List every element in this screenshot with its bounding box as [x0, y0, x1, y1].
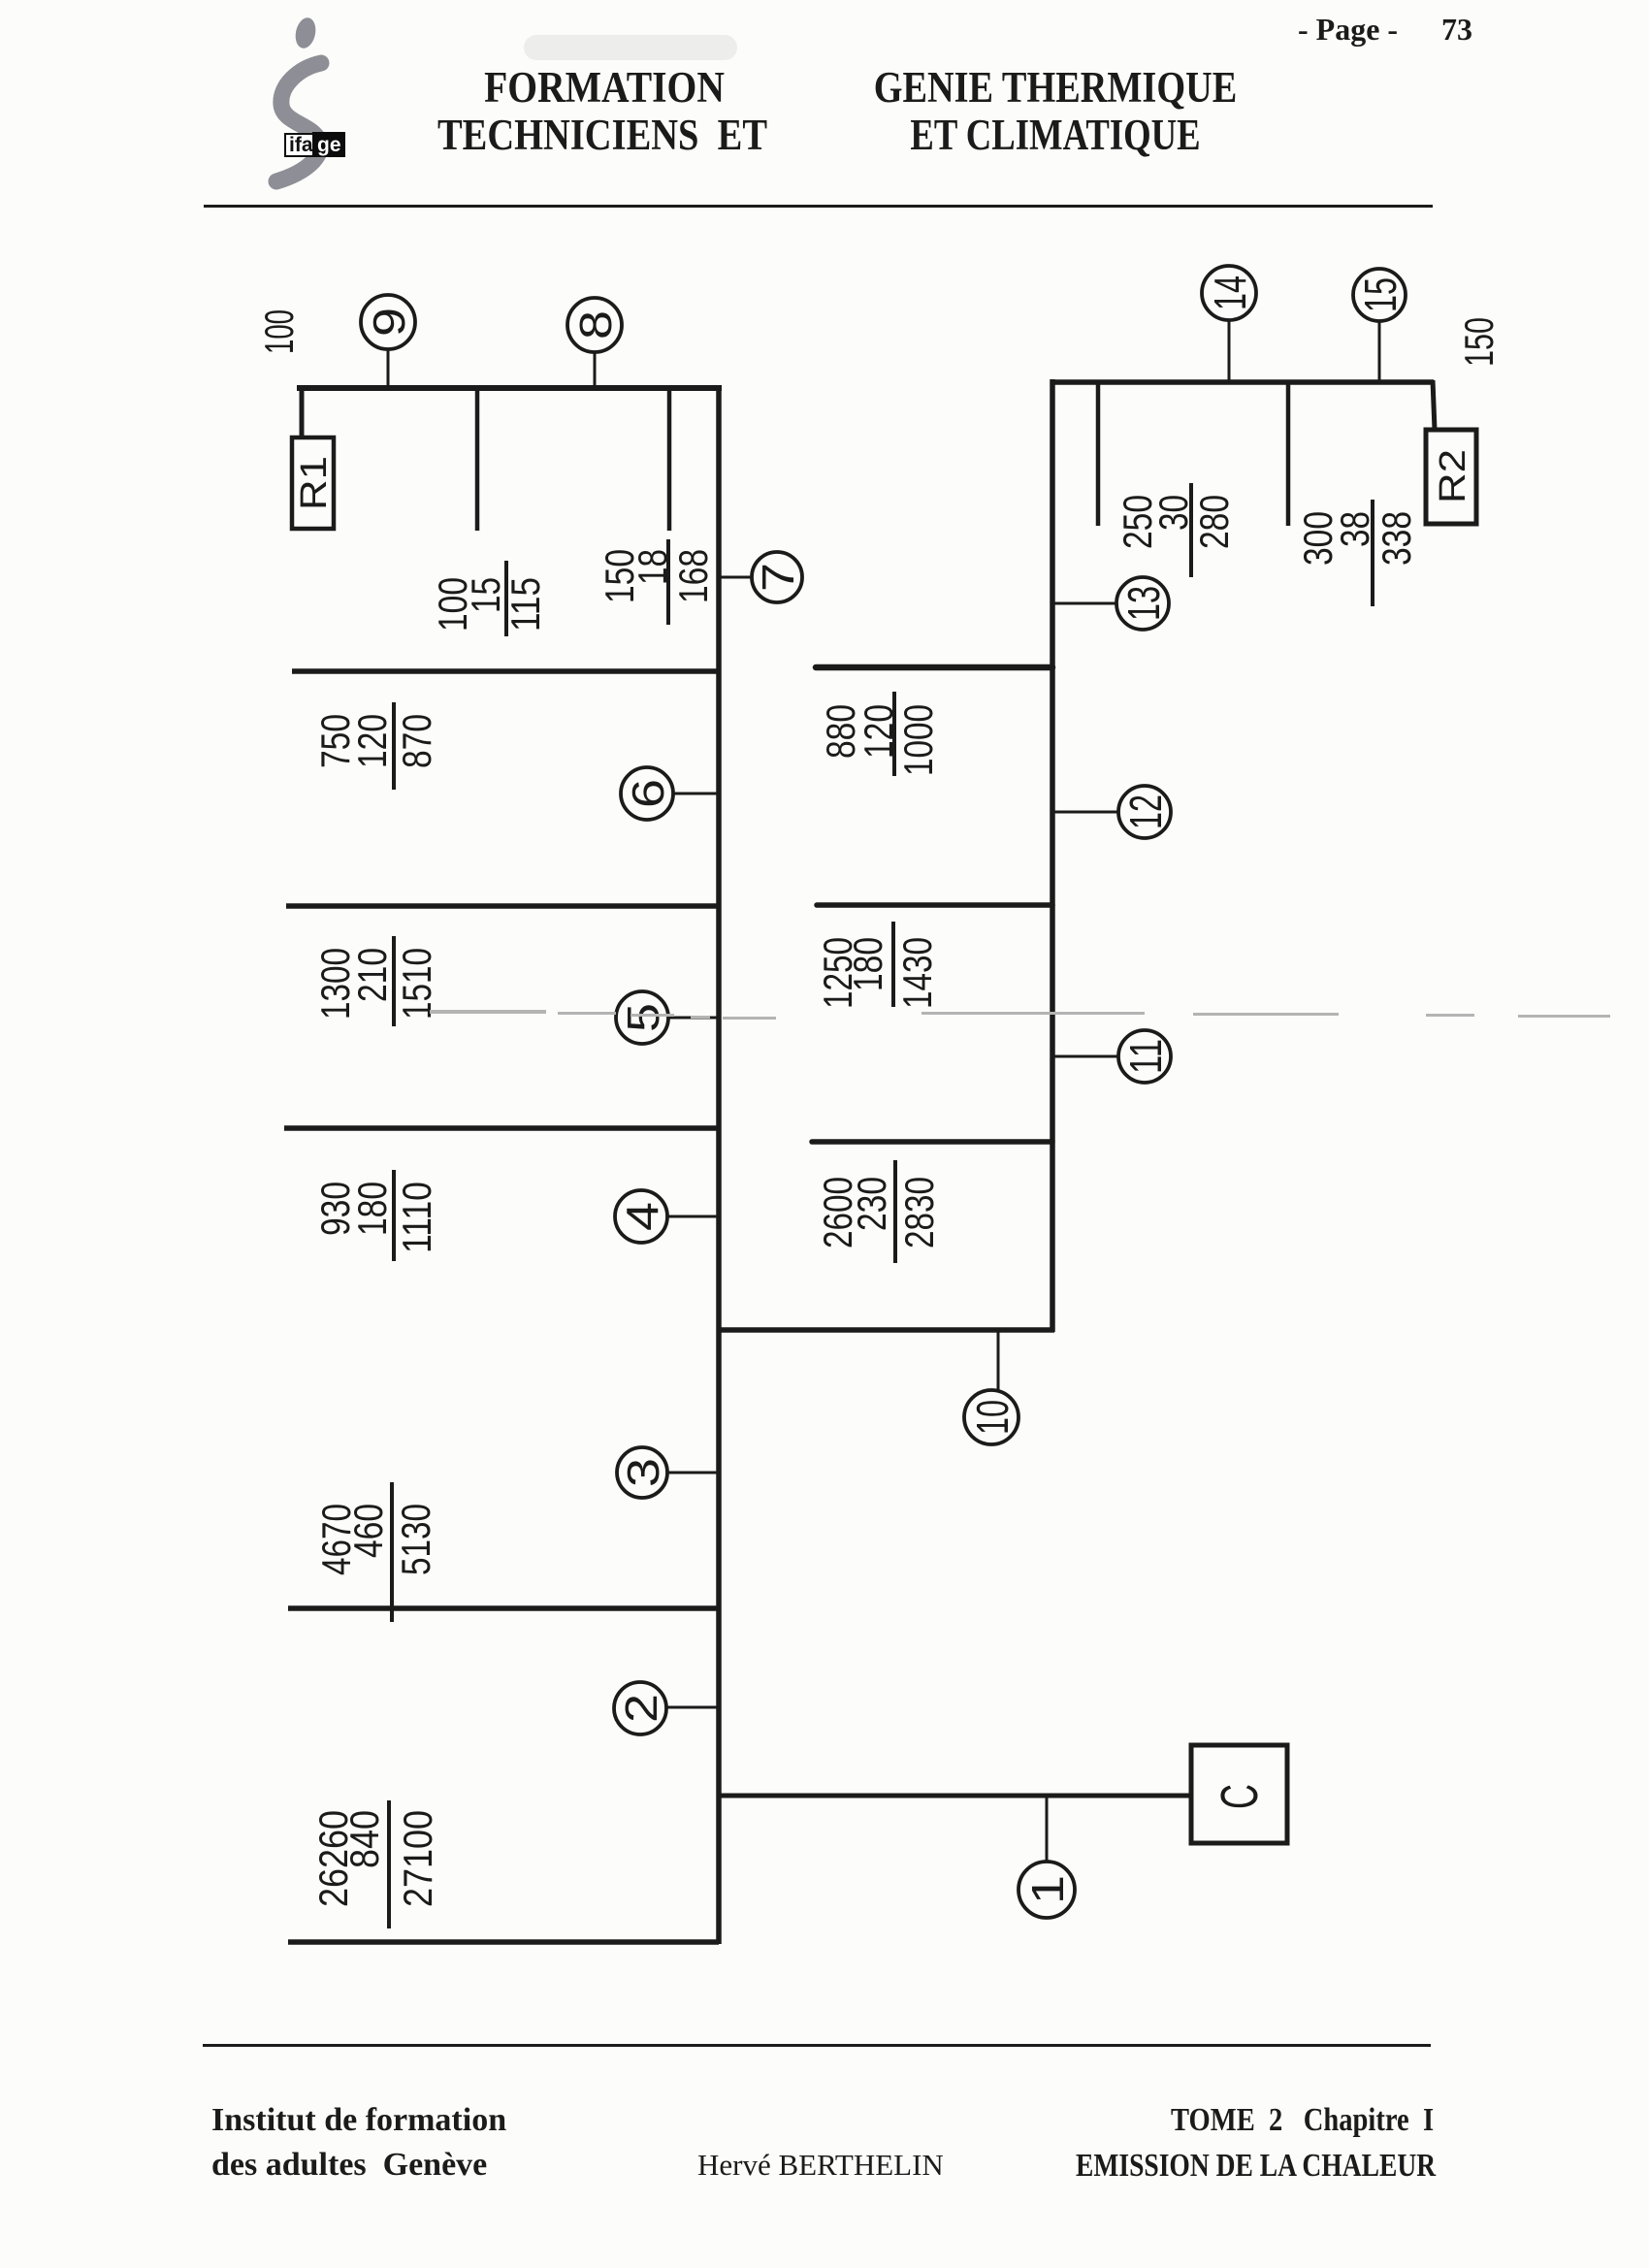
- ifage logo: [252, 10, 369, 194]
- svg-text:38: 38: [1332, 511, 1377, 547]
- node 5: [616, 991, 668, 1044]
- wire branch 750/120/870: [292, 668, 719, 674]
- svg-text:210: 210: [349, 948, 395, 1002]
- svg-text:2830: 2830: [896, 1177, 942, 1248]
- node 9: [361, 295, 415, 349]
- svg-text:4: 4: [617, 1202, 667, 1231]
- boiler C: [1191, 1745, 1287, 1843]
- svg-text:1430: 1430: [894, 937, 940, 1009]
- value label 26260+840=27100: [310, 1800, 440, 1928]
- scan smudge artifact: [524, 35, 737, 60]
- value label 300+38=338: [1295, 500, 1419, 606]
- svg-text:5130: 5130: [393, 1504, 438, 1575]
- svg-text:3: 3: [618, 1458, 668, 1487]
- footer: [203, 2044, 1431, 2047]
- svg-text:460: 460: [345, 1504, 391, 1558]
- svg-text:180: 180: [845, 937, 890, 991]
- wire stem node 13: [1054, 602, 1116, 605]
- svg-text:230: 230: [849, 1177, 894, 1231]
- pipe size label 100: [256, 309, 302, 354]
- wire stem node 4: [667, 1215, 719, 1218]
- svg-text:870: 870: [394, 714, 439, 768]
- wire tick branch at label 250/30/280: [1096, 384, 1101, 526]
- svg-text:C: C: [1211, 1784, 1269, 1809]
- node 6: [621, 767, 673, 820]
- node 12: [1118, 786, 1171, 838]
- node 2: [614, 1682, 666, 1734]
- svg-text:11: 11: [1120, 1039, 1171, 1074]
- pipe size label 150: [1456, 317, 1502, 367]
- scan streak artifact: [430, 1010, 1610, 1020]
- svg-text:2: 2: [616, 1694, 666, 1723]
- value label 4670+460=5130: [313, 1482, 438, 1622]
- wire tick branch at label 100/15/115: [475, 390, 480, 531]
- node 13: [1116, 577, 1169, 630]
- svg-text:1510: 1510: [394, 948, 439, 1020]
- wire left supply header (top horizontal): [297, 385, 722, 391]
- node 1: [1018, 1862, 1075, 1918]
- wire stem node 8: [594, 351, 597, 388]
- wire right riser: [1050, 379, 1055, 1332]
- wire stem node 10: [997, 1330, 1000, 1391]
- wire stem node 12: [1054, 811, 1118, 814]
- value label 100+15=115: [430, 561, 548, 636]
- value label 1300+210=1510: [312, 936, 439, 1026]
- node 11: [1118, 1030, 1171, 1083]
- value label 2600+230=2830: [815, 1160, 942, 1263]
- svg-text:15: 15: [463, 577, 508, 613]
- svg-text:14: 14: [1205, 275, 1255, 310]
- wire stub to radiator R1: [300, 386, 305, 436]
- svg-text:30: 30: [1150, 495, 1196, 531]
- svg-text:8: 8: [570, 310, 621, 340]
- wire branch 880/120/1000: [816, 664, 1052, 671]
- svg-text:1000: 1000: [895, 704, 941, 776]
- wire stem node 1: [1046, 1796, 1049, 1863]
- svg-text:R1: R1: [294, 456, 335, 510]
- wire branch 1250/180/1430: [817, 902, 1052, 908]
- radiator R2: [1426, 430, 1476, 524]
- wire stub to radiator R2: [1433, 380, 1435, 430]
- wire right supply header (top horizontal): [1052, 379, 1434, 385]
- node 3: [617, 1447, 668, 1498]
- radiator R1: [292, 437, 334, 529]
- svg-text:120: 120: [349, 714, 395, 768]
- wire right loop bottom return: [719, 1327, 1054, 1333]
- headers: [391, 62, 818, 113]
- svg-text:7: 7: [753, 563, 803, 592]
- svg-text:100: 100: [256, 309, 302, 354]
- value label 750+120=870: [312, 702, 439, 790]
- svg-text:R2: R2: [1433, 449, 1473, 503]
- svg-text:27100: 27100: [395, 1810, 440, 1907]
- wire stem node 6: [673, 793, 719, 795]
- svg-text:1: 1: [1022, 1875, 1073, 1904]
- wire branch 930/180/1110: [284, 1125, 719, 1131]
- wire branch 1300/210/1510: [286, 903, 719, 909]
- wire left main riser: [716, 385, 722, 1944]
- wire tick branch at label 150/18/168: [667, 390, 672, 531]
- wire branch 4670/460/5130: [288, 1605, 719, 1611]
- svg-text:840: 840: [341, 1810, 387, 1868]
- wire stem node 7: [721, 576, 752, 579]
- wire stem node 9: [387, 349, 390, 388]
- node 14: [1202, 266, 1256, 320]
- wire stem node 2: [666, 1706, 717, 1709]
- svg-text:168: 168: [670, 549, 716, 603]
- svg-text:9: 9: [364, 308, 414, 337]
- node 10: [964, 1390, 1018, 1444]
- svg-text:15: 15: [1355, 277, 1406, 312]
- value label 250+30=280: [1115, 483, 1237, 577]
- svg-text:150: 150: [1456, 317, 1502, 367]
- svg-text:6: 6: [623, 779, 673, 808]
- svg-text:10: 10: [967, 1400, 1018, 1435]
- wire stem node 14: [1228, 320, 1231, 382]
- svg-text:115: 115: [502, 577, 548, 632]
- svg-text:338: 338: [1374, 511, 1419, 566]
- wire stem node 11: [1054, 1055, 1118, 1058]
- wire stem node 3: [667, 1472, 719, 1474]
- wire run to boiler C: [719, 1794, 1192, 1798]
- value label 150+18=168: [597, 539, 716, 625]
- node 15: [1353, 269, 1406, 321]
- value label 880+120=1000: [818, 692, 941, 776]
- wire branch 2600/230/2830: [812, 1139, 1052, 1145]
- svg-text:12: 12: [1120, 794, 1171, 829]
- node 8: [567, 298, 622, 352]
- svg-text:180: 180: [349, 1182, 395, 1236]
- wire tick branch at label 300/38/338: [1286, 384, 1291, 526]
- node 4: [615, 1190, 667, 1243]
- wire stem node 15: [1378, 322, 1381, 382]
- value label 930+180=1110: [312, 1170, 439, 1261]
- wire branch 26260/840/27100: [288, 1939, 719, 1945]
- wire stem node 5: [668, 1017, 719, 1020]
- svg-text:13: 13: [1118, 586, 1169, 621]
- svg-text:5: 5: [618, 1003, 668, 1032]
- svg-text:1110: 1110: [394, 1182, 439, 1253]
- value label 1250+180=1430: [815, 922, 940, 1009]
- svg-text:280: 280: [1191, 495, 1237, 549]
- node 7: [752, 552, 803, 602]
